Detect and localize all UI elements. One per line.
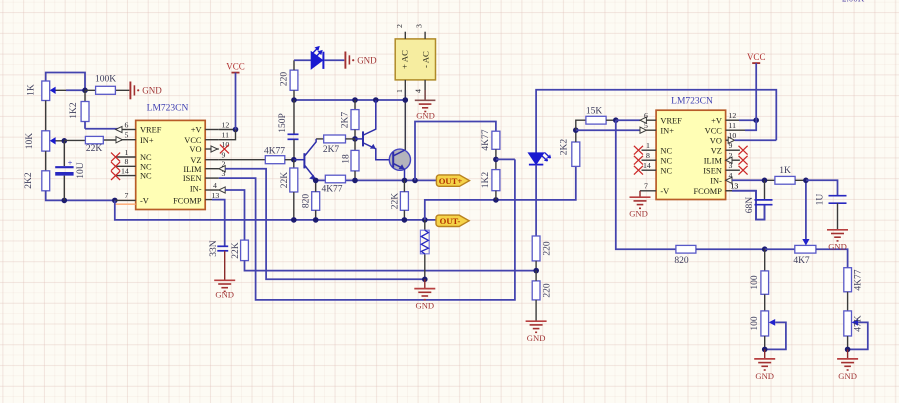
resistor R26 1K — [775, 166, 806, 184]
svg-text:GND: GND — [215, 290, 234, 300]
wire R2 bottom to R3 top — [45, 151, 47, 171]
svg-text:VCC: VCC — [705, 126, 723, 135]
svg-text:FCOMP: FCOMP — [173, 196, 202, 205]
svg-text:100: 100 — [750, 316, 760, 331]
svg-text:6: 6 — [125, 120, 129, 129]
svg-text:NC: NC — [660, 156, 672, 165]
svg-text:11: 11 — [729, 121, 737, 130]
wire collector bus top — [294, 99, 405, 101]
resistor R12 18 — [342, 139, 359, 181]
resistor R27 100 upper — [750, 249, 768, 311]
svg-text:2: 2 — [729, 151, 733, 160]
J1 pin 2 stub — [404, 32, 406, 39]
svg-text:-V: -V — [660, 187, 669, 196]
resistor R22 2K2 right — [560, 130, 580, 166]
resistor R29 4K77 right — [844, 268, 864, 311]
U2 pin 2 input marker — [726, 157, 732, 163]
svg-text:10: 10 — [729, 131, 737, 140]
LED D2 — [528, 153, 550, 237]
U1 pin 1 no-connect X — [111, 153, 120, 162]
J1 pin 4 stub — [424, 80, 426, 90]
resistor R17 shunt zigzag — [420, 220, 429, 279]
svg-text:8: 8 — [125, 157, 129, 166]
svg-text:9: 9 — [222, 151, 226, 160]
U1 pin 2 input marker — [219, 166, 225, 172]
resistor R6 22K horizontal — [64, 136, 122, 154]
U2 pin 13 stub FCOMP — [726, 190, 732, 192]
svg-text:4K77: 4K77 — [264, 146, 285, 156]
op-amp regulator U1 LM723CN body — [136, 120, 206, 209]
U2 pin 2 stub ILIM — [726, 159, 740, 161]
wire R1 bottom to R2 top — [45, 101, 47, 131]
wire pin3 down to H3 and 1K2/4K77 node — [219, 159, 515, 300]
svg-text:3: 3 — [222, 169, 226, 178]
svg-text:220: 220 — [280, 72, 290, 87]
svg-text:1K: 1K — [779, 166, 791, 176]
node dot VCC rail — [233, 127, 239, 133]
ground G3 below J1 pin 4 — [415, 90, 436, 120]
svg-text:ILIM: ILIM — [183, 165, 202, 174]
svg-text:ISEN: ISEN — [183, 174, 202, 183]
U1 pin 11 stub — [205, 139, 219, 141]
svg-text:18: 18 — [342, 154, 352, 164]
power port VCC left — [226, 62, 245, 130]
svg-text:GND: GND — [828, 242, 847, 252]
U2 pin 5 stub — [640, 129, 656, 131]
ground G2 sideways — [345, 52, 377, 69]
svg-text:+V: +V — [191, 126, 202, 135]
resistor R9 220 top — [280, 60, 312, 100]
U1 left pin names — [140, 126, 162, 206]
U2 pin 7 stub — [640, 190, 656, 192]
wire FCOMP loop to 68N bottom — [732, 191, 765, 220]
resistor R19 220 lower — [532, 271, 552, 321]
svg-text:VZ: VZ — [711, 146, 722, 155]
U2 pin 6 input marker — [640, 117, 646, 123]
U1 pin 10 stub VO — [205, 148, 219, 150]
node dot 2K7/18/Q2 base — [352, 136, 358, 142]
svg-text:100: 100 — [750, 275, 760, 290]
svg-text:VREF: VREF — [140, 126, 162, 135]
node dot Q3 emitter — [402, 178, 408, 184]
U2 pin 1 stub NC — [642, 149, 657, 151]
svg-text:12: 12 — [729, 111, 737, 120]
svg-text:22K: 22K — [231, 242, 241, 259]
svg-text:820: 820 — [674, 256, 689, 266]
node dot 47K pot bottom — [845, 347, 851, 353]
node dot VCC right — [753, 117, 759, 123]
ground G6 below 220 lower — [526, 321, 547, 343]
U1 pin 7 stub — [115, 199, 136, 201]
svg-text:1: 1 — [646, 141, 650, 150]
node dot 1K/1U/wiper — [803, 178, 809, 184]
capacitor C3 150P — [278, 100, 298, 160]
ground G4 below 33N — [214, 251, 235, 300]
wire +V long feed to LED2 chain — [536, 90, 776, 153]
svg-text:4K77: 4K77 — [481, 129, 491, 150]
svg-text:2K2: 2K2 — [560, 139, 570, 156]
svg-text:10K: 10K — [25, 133, 35, 150]
wire pin13 to 33N — [212, 200, 225, 246]
svg-text:NC: NC — [660, 146, 672, 155]
U2 pin 9 no-connect X — [739, 146, 748, 155]
svg-text:VCC: VCC — [226, 62, 245, 72]
svg-text:LM723CN: LM723CN — [671, 97, 713, 107]
svg-text:220: 220 — [543, 283, 553, 298]
resistor R8 22K feedback — [231, 240, 248, 261]
wire IN- to 1K — [732, 179, 765, 181]
svg-text:GND: GND — [416, 110, 435, 120]
U1 pin 6 stub — [122, 129, 136, 131]
U1 pin 10 output marker — [211, 146, 217, 152]
node dot 820/Q1 emitter — [313, 178, 319, 184]
potentiometer R1 1K — [27, 81, 85, 101]
wire OUT- sense to 2K2 — [425, 166, 576, 220]
resistor R20 4K77 vertical right — [481, 129, 500, 169]
U2 pin 8 stub NC — [642, 159, 657, 161]
node dot 1K2 bottom — [493, 197, 499, 203]
U1 pin 14 stub NC — [116, 175, 136, 177]
svg-text:4K77: 4K77 — [854, 269, 864, 290]
svg-text:15K: 15K — [586, 107, 603, 117]
potentiometer R25 4K7 — [765, 180, 848, 267]
svg-text:ISEN: ISEN — [703, 166, 722, 175]
svg-text:100K: 100K — [95, 74, 116, 84]
svg-text:22K: 22K — [86, 144, 103, 154]
U1 pin 6 input marker — [116, 126, 122, 132]
resistor R7 4K77 horizontal — [264, 146, 294, 163]
node dot 4K77/1K2 junction — [493, 157, 499, 163]
svg-text:NC: NC — [140, 162, 152, 171]
node dot shunt bottom — [422, 277, 428, 283]
svg-text:2.00K: 2.00K — [842, 0, 865, 4]
node dot pin7 junction — [112, 198, 118, 204]
svg-text:47K: 47K — [854, 315, 864, 332]
J1 pin 1 stub — [404, 80, 406, 90]
node dot VREF junction — [613, 117, 619, 123]
svg-text:7: 7 — [644, 182, 648, 191]
J1 pin 3 stub — [424, 32, 426, 39]
ground G8 below 1U — [827, 230, 848, 252]
U1 pin 13 stub FCOMP — [205, 199, 212, 201]
svg-text:1U: 1U — [816, 194, 826, 206]
node dot bus at Q2 collector — [373, 97, 379, 103]
U2 pin 2 no-connect X — [739, 156, 748, 165]
node dot R2 wiper / 22K / 10U — [62, 138, 68, 144]
potentiometer R28 100 — [750, 311, 786, 350]
svg-text:4: 4 — [729, 171, 733, 180]
svg-text:1K2: 1K2 — [481, 172, 491, 189]
svg-text:NC: NC — [140, 153, 152, 162]
U2 pin 8 no-connect X — [634, 156, 643, 165]
U1 pin 8 stub NC — [116, 165, 136, 167]
svg-text:14: 14 — [121, 166, 129, 175]
node dot shunt top — [422, 217, 428, 223]
svg-text:VZ: VZ — [190, 156, 201, 165]
svg-text:4K7: 4K7 — [793, 256, 810, 266]
svg-text:ILIM: ILIM — [704, 156, 723, 165]
U2 pin 12 stub — [726, 119, 739, 121]
transistor Q3 power NPN — [389, 149, 410, 180]
resistor R3 2K2 — [24, 171, 50, 191]
svg-text:7: 7 — [125, 191, 129, 200]
U2 pin 6 stub — [640, 119, 656, 121]
wire VO to +V feed riser — [735, 139, 777, 141]
svg-text:GND: GND — [755, 371, 774, 381]
U2 pin 10 output marker — [728, 137, 734, 143]
U2 left pin names — [660, 116, 682, 196]
svg-text:GND: GND — [527, 333, 546, 343]
U2 pin 4 input marker — [726, 177, 732, 183]
resistor R24 820 right — [674, 245, 764, 266]
svg-text:GND: GND — [838, 371, 857, 381]
U1 pin 5 stub — [122, 139, 136, 141]
svg-text:IN-: IN- — [190, 185, 202, 194]
connector OUT+ — [436, 175, 469, 186]
svg-text:2K2: 2K2 — [24, 172, 34, 189]
svg-text:+: + — [68, 157, 73, 167]
svg-text:13: 13 — [212, 191, 220, 200]
resistor R5 1K2 — [69, 90, 122, 129]
U2 pin 1 no-connect X — [634, 146, 643, 155]
svg-text:1: 1 — [395, 89, 404, 93]
wire pin11 riser to VCC dot — [219, 130, 236, 140]
wire junction to H3 riser — [496, 158, 515, 160]
capacitor C5 1U — [816, 194, 847, 230]
wire to 1U cap — [806, 180, 838, 195]
U2 pin 11 stub — [726, 129, 745, 131]
wire OUT+ rail — [316, 179, 437, 181]
U2 pin 10 stub VO — [726, 139, 734, 141]
LED D1 — [311, 46, 344, 69]
svg-text:OUT-: OUT- — [440, 216, 461, 226]
svg-text:220: 220 — [543, 241, 553, 256]
node dot IN+ divider — [573, 127, 579, 133]
svg-text:1: 1 — [125, 148, 129, 157]
resistor R13 820 — [302, 180, 320, 220]
svg-text:1K: 1K — [27, 84, 37, 96]
resistor R18 220 upper — [532, 236, 552, 271]
node dot 18/4K77 — [352, 178, 358, 184]
svg-text:1K2: 1K2 — [69, 102, 79, 119]
svg-text:820: 820 — [302, 194, 312, 209]
U1 pin 2 stub ILIM — [205, 168, 219, 170]
node dot 22K left bottom — [291, 217, 297, 223]
svg-text:3: 3 — [415, 24, 424, 28]
node dot 820/4K7/100 — [762, 246, 768, 252]
svg-text:LM723CN: LM723CN — [147, 104, 189, 114]
svg-text:4: 4 — [414, 89, 423, 93]
U1 pin 5 input marker — [116, 137, 122, 143]
node dot 10U bottom — [62, 198, 68, 204]
svg-text:2: 2 — [222, 160, 226, 169]
wire VREF to U2 pin6 — [616, 119, 640, 121]
svg-text:GND: GND — [142, 86, 162, 96]
U1 pin 4 input marker — [219, 187, 225, 193]
svg-text:5: 5 — [125, 131, 129, 140]
svg-text:4: 4 — [213, 181, 217, 190]
wire top loop left of R1 — [46, 73, 85, 91]
capacitor C2 33N — [209, 240, 228, 257]
svg-text:68N: 68N — [745, 197, 755, 214]
node dot bus at 220 — [291, 97, 297, 103]
orange highlight under pin 7 — [115, 203, 136, 205]
svg-text:11: 11 — [222, 131, 230, 140]
connector OUT- — [436, 215, 469, 226]
transistor Q1 NPN — [294, 139, 316, 180]
svg-text:14: 14 — [643, 161, 651, 170]
svg-text:3: 3 — [729, 161, 733, 170]
svg-text:FCOMP: FCOMP — [693, 187, 722, 196]
wire -V net bottom left — [46, 191, 115, 201]
U1 right pin names — [173, 126, 202, 206]
U1 pin 1 stub NC — [116, 156, 136, 158]
U2 pin 3 no-connect X — [739, 166, 748, 175]
svg-text:+ AC: + AC — [400, 50, 410, 69]
U2 pin 13 stub FCOMP — [726, 190, 732, 192]
U2 pin 3 stub ISEN — [726, 169, 740, 171]
node dot bus at J1 pin1 — [403, 97, 409, 103]
power port VCC right — [747, 52, 766, 120]
svg-text:OUT+: OUT+ — [439, 176, 463, 186]
U2 pin 14 stub NC — [642, 169, 657, 171]
wire H1 22K to divider mid — [245, 261, 537, 271]
resistor R16 22K middle — [391, 180, 409, 220]
svg-text:13: 13 — [731, 182, 739, 191]
connector J1 AC input — [395, 39, 435, 80]
U1 pin 3 stub ISEN — [205, 177, 219, 179]
svg-text:10U: 10U — [76, 162, 86, 179]
svg-text:VREF: VREF — [660, 116, 682, 125]
node dot 100 pot bottom — [762, 347, 768, 353]
wire riser OUT+ to 4K77 top — [415, 122, 496, 181]
U1 pin 14 no-connect X — [111, 171, 120, 180]
U2 pin 5 input marker — [640, 127, 646, 133]
svg-text:GND: GND — [629, 209, 648, 219]
svg-text:- AC: - AC — [420, 51, 430, 68]
resistor R4 100K — [85, 74, 129, 94]
wire pin9 to 4K77 — [219, 159, 265, 161]
potentiometer R30 47K — [844, 311, 868, 350]
wire pin11 riser to VCC dot — [745, 120, 756, 130]
node dot 68N top — [762, 178, 768, 184]
op-amp regulator U2 LM723CN body — [656, 110, 726, 199]
node dot R1 wiper / 100K / 1K2 — [82, 88, 88, 94]
node dot divider midpoint — [533, 268, 539, 274]
resistor R14 22K left — [280, 160, 298, 220]
node dot bus at 2K7 — [352, 97, 358, 103]
svg-text:12: 12 — [222, 120, 230, 129]
svg-text:GND: GND — [357, 56, 377, 66]
U1 pin 10 no-connect X — [220, 145, 229, 154]
svg-text:VO: VO — [189, 145, 201, 154]
svg-text:6: 6 — [644, 111, 648, 120]
svg-text:IN-: IN- — [710, 176, 722, 185]
ground G10 below 47K pot — [837, 349, 858, 381]
U2 pin 14 no-connect X — [634, 166, 643, 175]
capacitor C1 10U polarized — [55, 141, 86, 201]
U2 pin 4 stub IN- — [726, 179, 739, 181]
node dot 820 bottom — [313, 217, 319, 223]
capacitor C4 68N — [745, 180, 772, 213]
svg-text:4K77: 4K77 — [321, 185, 342, 195]
resistor R21 1K2 right — [481, 170, 500, 200]
svg-text:NC: NC — [660, 166, 672, 175]
U2 pin 9 stub VZ — [726, 149, 740, 151]
resistor R10 2K7 vertical — [341, 100, 359, 139]
svg-text:IN+: IN+ — [660, 126, 674, 135]
svg-text:VO: VO — [710, 136, 722, 145]
svg-text:22K: 22K — [391, 193, 401, 210]
svg-text:8: 8 — [646, 151, 650, 160]
ground G5 below shunt — [414, 279, 435, 310]
svg-text:22K: 22K — [280, 172, 290, 189]
wire IN+ to U2 pin5 — [576, 129, 640, 131]
node dot 22K middle bottom — [402, 217, 408, 223]
svg-text:+V: +V — [711, 116, 722, 125]
svg-text:GND: GND — [415, 301, 434, 311]
U1 pin 4 stub IN- — [205, 189, 219, 191]
resistor R23 15K — [576, 107, 616, 131]
wire OUT- rail — [115, 200, 436, 220]
ground G7 below U2 pin 7 — [629, 191, 650, 219]
wire +V to VCC node — [739, 119, 756, 121]
wire pin4 down to 22K feedback — [225, 190, 244, 240]
potentiometer R2 10K — [25, 131, 64, 151]
svg-text:IN+: IN+ — [140, 136, 154, 145]
U1 pin 12 stub — [205, 129, 219, 131]
svg-text:2K7: 2K7 — [323, 145, 340, 155]
svg-text:150P: 150P — [278, 113, 288, 133]
transistor Q2 NPN — [355, 100, 393, 160]
svg-text:VCC: VCC — [184, 136, 202, 145]
svg-text:5: 5 — [644, 121, 648, 130]
U2 right pin names — [693, 116, 722, 196]
svg-text:NC: NC — [140, 172, 152, 181]
node dot VZ/150P/Q1 base — [291, 157, 297, 163]
wire VREF riser down to 820 — [616, 120, 676, 249]
wire +V to VCC rail — [219, 129, 236, 131]
wire FCOMP loop to 68N bottom — [732, 191, 765, 220]
ground G1 sideways — [130, 82, 162, 100]
wire pin2 down to H2 and shunt ground — [225, 169, 425, 280]
node dot OUT+ riser — [412, 178, 418, 184]
resistor R15 4K77 horizontal 2 — [321, 175, 345, 194]
U1 pin 8 no-connect X — [111, 162, 120, 171]
resistor R11 2K7 horizontal — [316, 135, 355, 155]
svg-text:VCC: VCC — [747, 52, 766, 62]
svg-text:-V: -V — [140, 196, 149, 205]
ground G9 below 100 pot — [754, 349, 775, 381]
svg-text:9: 9 — [729, 141, 733, 150]
svg-text:2: 2 — [395, 24, 404, 28]
svg-text:33N: 33N — [209, 240, 219, 257]
svg-text:2K7: 2K7 — [341, 112, 351, 129]
U1 pin 9 stub VZ — [205, 159, 219, 161]
